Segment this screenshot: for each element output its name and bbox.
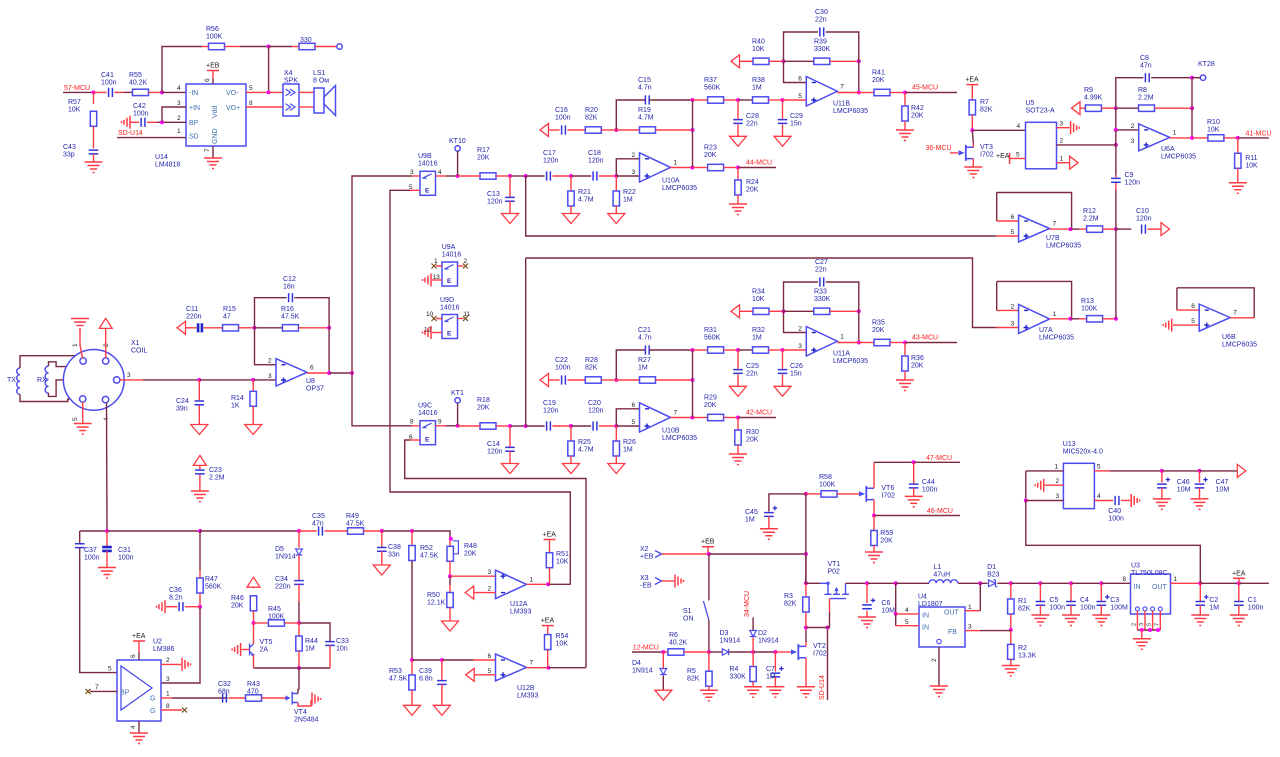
ground bbox=[655, 690, 672, 700]
wire bbox=[997, 220, 1019, 222]
wire bbox=[1239, 582, 1269, 584]
svg-text:5: 5 bbox=[798, 93, 802, 100]
svg-text:R1: R1 bbox=[1018, 598, 1027, 605]
wire bbox=[571, 425, 591, 427]
svg-text:1N914: 1N914 bbox=[720, 638, 741, 645]
svg-text:1N914: 1N914 bbox=[275, 554, 296, 561]
wire bbox=[1147, 228, 1161, 230]
wire bbox=[737, 374, 739, 386]
junction bbox=[691, 416, 695, 420]
ground bbox=[232, 643, 241, 656]
svg-text:22n: 22n bbox=[815, 17, 827, 24]
resistor R5 bbox=[706, 671, 712, 686]
junction bbox=[350, 371, 354, 375]
svg-text:120n: 120n bbox=[487, 199, 503, 206]
wire bbox=[896, 613, 919, 615]
resistor R26 bbox=[613, 441, 619, 456]
svg-text:33n: 33n bbox=[388, 552, 400, 559]
junction bbox=[508, 174, 512, 178]
svg-text:100n: 100n bbox=[133, 111, 149, 118]
wire bbox=[1238, 605, 1240, 615]
wire bbox=[649, 349, 692, 351]
wire bbox=[549, 540, 551, 553]
svg-text:3: 3 bbox=[1011, 321, 1015, 328]
svg-text:C5: C5 bbox=[1049, 597, 1058, 604]
analog switch U9B bbox=[420, 171, 436, 195]
IC U13 MIC520x-4.0 bbox=[1063, 463, 1094, 508]
wire bbox=[1079, 228, 1087, 230]
arrow output bbox=[1161, 223, 1170, 236]
junction bbox=[105, 529, 109, 533]
resistor R2 bbox=[1008, 644, 1014, 659]
svg-text:U12B: U12B bbox=[517, 685, 535, 692]
svg-text:VT5: VT5 bbox=[260, 639, 273, 646]
wire bbox=[138, 721, 140, 733]
resistor R11 bbox=[1235, 153, 1241, 168]
wire bbox=[157, 121, 186, 123]
svg-text:3: 3 bbox=[127, 372, 131, 379]
svg-text:U10A: U10A bbox=[662, 178, 680, 185]
wire bbox=[299, 91, 314, 93]
power +EB bbox=[702, 546, 714, 548]
ground bbox=[1153, 499, 1171, 510]
wire bbox=[298, 689, 299, 693]
wire bbox=[458, 318, 464, 320]
svg-text:Vdd: Vdd bbox=[212, 105, 219, 118]
svg-text:C46: C46 bbox=[1177, 479, 1190, 486]
wire bbox=[527, 667, 549, 669]
arrow bbox=[540, 374, 549, 387]
svg-text:68n: 68n bbox=[218, 689, 230, 696]
wire bbox=[866, 611, 868, 617]
wire bbox=[997, 235, 1019, 237]
svg-text:R25: R25 bbox=[578, 439, 591, 446]
svg-text:4.7M: 4.7M bbox=[578, 447, 594, 454]
svg-text:U4: U4 bbox=[918, 594, 927, 601]
ground bbox=[204, 158, 222, 169]
wire bbox=[740, 60, 754, 62]
wire bbox=[473, 659, 495, 661]
svg-text:5: 5 bbox=[488, 668, 492, 675]
svg-text:C19: C19 bbox=[543, 400, 556, 407]
svg-text:C27: C27 bbox=[815, 259, 828, 266]
svg-text:IN: IN bbox=[1134, 584, 1141, 591]
ground bbox=[700, 690, 718, 701]
svg-text:C26: C26 bbox=[790, 363, 803, 370]
wire bbox=[410, 439, 420, 441]
wire bbox=[1115, 130, 1117, 145]
ground bbox=[563, 214, 580, 224]
wire bbox=[1094, 470, 1110, 472]
wire bbox=[199, 475, 201, 491]
wire pin1 bbox=[1026, 470, 1064, 472]
svg-text:2: 2 bbox=[166, 657, 170, 664]
junction bbox=[707, 650, 711, 654]
analog switch U9C bbox=[420, 421, 436, 445]
svg-text:C25: C25 bbox=[746, 363, 759, 370]
junction bbox=[1140, 628, 1144, 632]
wire bbox=[632, 651, 663, 653]
transistor VT6 bbox=[859, 491, 865, 496]
svg-text:2: 2 bbox=[488, 586, 492, 593]
wire bbox=[436, 425, 447, 427]
wire bbox=[269, 46, 292, 48]
wire bbox=[1071, 228, 1080, 230]
wire bbox=[458, 175, 480, 177]
capacitor C25 bbox=[733, 370, 743, 374]
wire bbox=[693, 417, 708, 419]
svg-text:C40: C40 bbox=[1108, 508, 1121, 515]
ground bbox=[774, 386, 791, 396]
svg-text:KT1: KT1 bbox=[451, 390, 464, 397]
svg-text:5: 5 bbox=[108, 666, 112, 673]
wire bbox=[830, 60, 859, 62]
svg-text:R39: R39 bbox=[814, 38, 827, 45]
resistor R1 bbox=[1008, 599, 1014, 614]
junction bbox=[1114, 227, 1118, 231]
svg-text:560K: 560K bbox=[704, 85, 721, 92]
wire U12B out to U9C pin6 bbox=[405, 440, 586, 668]
svg-text:E: E bbox=[425, 187, 430, 194]
svg-text:100M: 100M bbox=[1110, 605, 1128, 612]
ground bbox=[98, 568, 116, 579]
arrow bbox=[540, 124, 549, 137]
op-amp U14 LM4818 bbox=[186, 84, 246, 146]
junction bbox=[92, 90, 96, 94]
wire bus up bbox=[352, 176, 412, 373]
resistor R30 bbox=[735, 430, 741, 445]
wire bbox=[120, 379, 143, 381]
svg-text:E: E bbox=[425, 437, 430, 444]
wire to op-amp bbox=[616, 175, 639, 177]
svg-text:1K: 1K bbox=[231, 403, 240, 410]
svg-text:3: 3 bbox=[177, 100, 181, 107]
svg-text:1M: 1M bbox=[766, 674, 776, 681]
resistor R18 bbox=[480, 423, 496, 429]
svg-text:120n: 120n bbox=[543, 158, 559, 165]
wire bbox=[1191, 78, 1193, 138]
wire to U8 pin 3 bbox=[253, 379, 276, 381]
junction bbox=[508, 424, 512, 428]
svg-text:ON: ON bbox=[683, 616, 694, 623]
power +EA bbox=[544, 539, 556, 541]
wire bbox=[615, 176, 617, 191]
svg-text:7: 7 bbox=[1233, 310, 1237, 317]
wire bbox=[649, 99, 692, 101]
svg-text:1N914: 1N914 bbox=[758, 638, 779, 645]
wire bbox=[441, 684, 443, 705]
op-amp U11A bbox=[806, 327, 837, 357]
wire bbox=[599, 425, 616, 427]
junction bbox=[1148, 628, 1152, 632]
wire bbox=[805, 554, 807, 583]
resistor R46 bbox=[250, 596, 256, 611]
svg-text:C10: C10 bbox=[1136, 208, 1149, 215]
wire bbox=[904, 371, 906, 380]
wire bbox=[965, 610, 980, 612]
wire bbox=[449, 576, 451, 585]
wire bbox=[1025, 471, 1027, 501]
wire pin 7 bbox=[90, 690, 117, 692]
svg-text:VO+: VO+ bbox=[226, 105, 240, 112]
wire bbox=[299, 623, 330, 642]
wire bbox=[662, 652, 664, 668]
wire to U2 pin 5 bbox=[80, 548, 117, 673]
wire bbox=[1115, 190, 1117, 229]
svg-text:R51: R51 bbox=[556, 551, 569, 558]
svg-text:R52: R52 bbox=[420, 545, 433, 552]
svg-text:47.5K: 47.5K bbox=[389, 676, 408, 683]
junction bbox=[691, 348, 695, 352]
ground bbox=[865, 552, 883, 563]
wire bbox=[938, 647, 940, 686]
wire bbox=[458, 425, 480, 427]
wire bbox=[411, 561, 413, 661]
wire bbox=[784, 310, 814, 312]
wire bbox=[269, 91, 283, 93]
wire bbox=[656, 379, 693, 381]
svg-text:R13: R13 bbox=[1081, 298, 1094, 305]
svg-text:2.2M: 2.2M bbox=[209, 475, 225, 482]
capacitor C14 bbox=[505, 447, 515, 451]
wire bbox=[737, 124, 739, 136]
wire bbox=[1238, 583, 1240, 601]
wire bbox=[130, 121, 139, 123]
wire bbox=[782, 100, 784, 119]
junction bbox=[1024, 499, 1028, 503]
capacitor C16 bbox=[562, 125, 566, 134]
svg-text:R56: R56 bbox=[206, 26, 219, 33]
junction bbox=[297, 621, 301, 625]
wire bbox=[552, 175, 571, 177]
wire bbox=[199, 531, 201, 570]
junction bbox=[1069, 227, 1073, 231]
svg-text:R17: R17 bbox=[477, 147, 490, 154]
capacitor C17 bbox=[547, 171, 551, 180]
svg-text:1M: 1M bbox=[623, 197, 633, 204]
svg-text:12-MCU: 12-MCU bbox=[633, 645, 659, 652]
svg-text:22n: 22n bbox=[746, 121, 758, 128]
wire bbox=[1079, 318, 1087, 320]
svg-text:R46: R46 bbox=[231, 595, 244, 602]
svg-text:330K: 330K bbox=[729, 674, 746, 681]
capacitor C19 bbox=[547, 421, 551, 430]
capacitor C31 bbox=[102, 547, 112, 551]
svg-text:X1: X1 bbox=[131, 340, 140, 347]
svg-text:220n: 220n bbox=[186, 314, 202, 321]
resistor R57 bbox=[90, 111, 96, 126]
svg-text:C14: C14 bbox=[487, 441, 500, 448]
junction bbox=[253, 326, 257, 330]
svg-text:C17: C17 bbox=[543, 150, 556, 157]
wire bbox=[708, 686, 710, 690]
wire bbox=[364, 530, 382, 532]
wire bbox=[526, 425, 545, 427]
capacitor C43 bbox=[89, 150, 99, 154]
wire bbox=[525, 258, 527, 426]
wire bbox=[896, 582, 929, 584]
ground bbox=[373, 565, 390, 575]
trimmer R48 20K bbox=[447, 546, 453, 561]
svg-text:U11B: U11B bbox=[833, 101, 850, 108]
svg-text:R45: R45 bbox=[268, 606, 281, 613]
wire bbox=[252, 406, 254, 424]
svg-text:100n: 100n bbox=[1248, 605, 1264, 612]
junction bbox=[1198, 469, 1202, 473]
capacitor C4 bbox=[1066, 602, 1076, 606]
svg-text:11: 11 bbox=[464, 311, 471, 318]
wire bbox=[806, 493, 821, 495]
resistor R40 bbox=[753, 58, 769, 64]
wire bbox=[198, 380, 200, 400]
junction bbox=[736, 348, 740, 352]
wire bbox=[199, 593, 201, 607]
svg-text:C23: C23 bbox=[209, 467, 222, 474]
svg-text:2: 2 bbox=[103, 343, 110, 347]
wire bbox=[1115, 183, 1117, 190]
wire bbox=[724, 99, 738, 101]
wire bbox=[315, 46, 337, 48]
wire bbox=[567, 379, 585, 381]
power bbox=[247, 577, 260, 587]
wire bbox=[859, 92, 874, 94]
wire bbox=[837, 342, 859, 344]
capacitor C36 bbox=[179, 602, 183, 611]
wire bbox=[752, 682, 754, 687]
svg-text:1M: 1M bbox=[623, 447, 633, 454]
svg-text:82K: 82K bbox=[784, 601, 797, 608]
resistor R36 bbox=[902, 356, 908, 371]
svg-text:10M: 10M bbox=[881, 608, 895, 615]
junction bbox=[614, 128, 618, 132]
wire bbox=[106, 551, 108, 568]
svg-text:10n: 10n bbox=[336, 646, 348, 653]
wire bbox=[662, 580, 675, 582]
svg-text:R21: R21 bbox=[578, 189, 591, 196]
svg-text:R44: R44 bbox=[305, 638, 318, 645]
svg-text:470: 470 bbox=[247, 689, 259, 696]
wire bbox=[228, 697, 245, 699]
svg-text:2.2M: 2.2M bbox=[1083, 216, 1099, 223]
resistor R28 bbox=[585, 377, 601, 383]
junction bbox=[736, 166, 740, 170]
wire bbox=[826, 32, 859, 93]
svg-text:9: 9 bbox=[438, 419, 442, 426]
wire bbox=[1238, 578, 1240, 583]
wire bbox=[971, 85, 973, 100]
wire bbox=[449, 608, 451, 622]
wire bbox=[199, 379, 253, 381]
junction bbox=[252, 621, 256, 625]
wire bbox=[1177, 309, 1199, 311]
svg-text:20K: 20K bbox=[704, 152, 717, 159]
wire bbox=[830, 310, 859, 312]
wire bbox=[1170, 137, 1192, 139]
wire bbox=[768, 516, 770, 528]
junction bbox=[707, 552, 711, 556]
resistor R17 bbox=[480, 173, 496, 179]
svg-text:+EB: +EB bbox=[701, 539, 715, 546]
junction bbox=[978, 581, 982, 585]
svg-text:7: 7 bbox=[674, 409, 678, 416]
svg-text:2: 2 bbox=[931, 658, 938, 662]
resistor R10 bbox=[1208, 135, 1224, 141]
wire bbox=[299, 667, 330, 669]
svg-text:5: 5 bbox=[249, 85, 253, 92]
wire bbox=[200, 530, 299, 532]
ground bbox=[964, 167, 982, 178]
capacitor C5 bbox=[1036, 602, 1046, 606]
svg-text:5: 5 bbox=[1011, 229, 1015, 236]
junction bbox=[912, 460, 916, 464]
svg-text:G: G bbox=[150, 696, 155, 703]
wire bbox=[752, 618, 754, 631]
capacitor C42 bbox=[141, 118, 145, 127]
power +EA bbox=[966, 84, 978, 86]
svg-text:RX: RX bbox=[37, 377, 47, 384]
svg-text:1N914: 1N914 bbox=[632, 668, 653, 675]
resistor R7 bbox=[969, 100, 975, 115]
wire bbox=[570, 426, 572, 441]
wire bbox=[753, 651, 775, 653]
wire bbox=[1071, 318, 1080, 320]
wire bbox=[552, 425, 571, 427]
wire bbox=[1116, 78, 1144, 109]
wire bbox=[149, 91, 163, 93]
svg-text:14016: 14016 bbox=[440, 305, 460, 312]
capacitor C3 bbox=[1097, 602, 1107, 606]
svg-text:47uH: 47uH bbox=[933, 572, 950, 579]
wire bbox=[411, 531, 413, 546]
svg-text:43-MCU: 43-MCU bbox=[912, 335, 938, 342]
terminal KT10 bbox=[455, 146, 460, 151]
capacitor C18 bbox=[593, 171, 597, 180]
svg-text:4: 4 bbox=[1097, 493, 1101, 500]
svg-text:57-MCU: 57-MCU bbox=[64, 85, 90, 92]
wire bbox=[1040, 582, 1071, 584]
wire U3 ground pins bbox=[1136, 611, 1138, 630]
capacitor C23 bbox=[195, 470, 205, 474]
wire bbox=[1176, 288, 1178, 310]
op-amp U6A bbox=[1139, 124, 1170, 151]
resistor R8 bbox=[1139, 105, 1155, 111]
svg-text:C7: C7 bbox=[766, 666, 775, 673]
ground bbox=[442, 621, 459, 631]
wire bbox=[1010, 659, 1012, 665]
wire bbox=[1237, 138, 1239, 153]
wire bbox=[441, 660, 443, 681]
svg-text:C6: C6 bbox=[881, 600, 890, 607]
arrow bbox=[1072, 102, 1081, 115]
junction bbox=[903, 341, 907, 345]
wire bbox=[783, 99, 807, 101]
wire bbox=[1080, 107, 1085, 109]
ground bbox=[502, 214, 519, 224]
svg-text:R41: R41 bbox=[872, 70, 885, 77]
svg-text:4: 4 bbox=[1017, 123, 1021, 130]
junction bbox=[1236, 136, 1240, 140]
svg-text:C45: C45 bbox=[745, 509, 758, 516]
svg-text:4.7M: 4.7M bbox=[578, 197, 594, 204]
no-connect bbox=[432, 264, 437, 269]
svg-text:R58: R58 bbox=[819, 474, 832, 481]
svg-text:3: 3 bbox=[1060, 121, 1064, 128]
junction bbox=[1114, 143, 1118, 147]
resistor R54 bbox=[545, 635, 551, 650]
wire bbox=[547, 650, 549, 668]
svg-text:45-MCU: 45-MCU bbox=[912, 85, 938, 92]
wire bbox=[826, 282, 859, 343]
